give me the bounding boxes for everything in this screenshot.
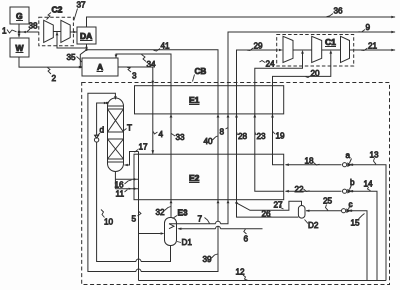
wire valve c outlet down to bottom header [351,211,367,281]
wire 27 from junction to D2 top [237,201,302,210]
svg-text:40: 40 [204,137,214,146]
arrow wire 17 into column right [124,164,128,167]
wire 7-8-9 from E3 coil up to product arrow 9 [169,32,395,224]
wire bottom header collecting a b c returns [139,280,387,282]
label 7 [198,215,210,224]
arrow wire 9 right end [391,31,395,34]
cold box CB (large dashed box) [82,83,390,285]
wire C1 interstage 2 [322,49,341,51]
exchanger E1 [135,86,284,114]
svg-text:18: 18 [305,157,315,166]
label 11 [116,190,128,199]
svg-text:6: 6 [244,235,249,244]
arrow wire 6 into D1 right [177,228,181,231]
box W [10,38,29,57]
label 25 [323,197,333,211]
arrow wire 3 at CB boundary [151,81,154,85]
label 21 [361,42,378,51]
wire C2 interstage feed riser [57,32,87,48]
compressor C2 stage 2 [61,20,70,42]
label 28 [237,132,248,141]
wire 38 from C2 to G-W shaft [20,31,39,33]
svg-text:G: G [16,11,23,21]
node 16 junction [133,178,135,180]
wire C2 outlet to DA [70,31,76,33]
arrow into A left [79,66,82,69]
label 15 [351,214,365,228]
wire 21 C1 outlet to right edge [350,49,396,51]
arrow up into E1 bottom x254.8 [253,114,256,118]
svg-text:C2: C2 [52,5,63,15]
node wire2 junction [79,66,81,68]
arrow wire 5 into D1 left [161,232,165,235]
svg-text:21: 21 [368,42,378,51]
hop of wire 6 over wire 39 [216,226,221,228]
svg-text:T: T [127,124,132,133]
label 20 [306,69,321,78]
exchanger E2 [134,154,284,200]
wire 22 valve b to E2 [286,190,342,192]
arrow up into E2 bottom x228 [227,200,230,204]
wire 2 from W to A [19,57,81,67]
wire 34-33-32 vapor stream: D1 top up through E2 E1 to box A [116,54,171,218]
wire column bottom outlet [114,172,116,189]
wire 18 valve a to E2 [286,164,342,166]
label 9 [359,23,371,32]
column T [108,98,124,172]
compressor C2 stage 1 [44,20,54,42]
arrow wire 18 into E2 right [285,163,289,166]
svg-text:35: 35 [67,53,77,62]
wire 17 to column top section [125,152,139,166]
drum D1 [165,218,177,246]
svg-text:26: 26 [262,210,272,219]
compressor C1 stage 2 [312,36,322,62]
svg-text:1: 1 [2,27,7,36]
arrow up into E1 bottom x171 [170,114,173,118]
box G [10,7,29,24]
label 19 [273,132,285,141]
wire 41-40-39 lean stream: DA junction right, down through E1 E2, bottom loop to column top [87,50,219,272]
arrow down into A top [115,55,118,59]
label 34 [142,55,157,70]
label 18 [305,157,320,166]
box DA [77,27,96,44]
svg-text:8: 8 [220,128,225,137]
svg-text:28: 28 [238,132,248,141]
wire 3-4 from A through E1 to E2 top [118,67,153,154]
svg-text:39: 39 [203,255,213,264]
arrow up into E1 bottom x272.5 [271,114,274,118]
hop of wire 7 over wire 39 [216,221,221,223]
wire 16 column bottom to E2 [115,178,138,180]
arrow up into C1 interstage 1 [301,50,304,54]
wire 2 arrow stub into A [80,66,82,68]
label 6 [244,229,249,244]
hop of wire d over riser at 261.5 [136,259,141,262]
arrow wire 22 into E2 right [285,190,289,193]
arrow up into E1 bottom x228 [227,114,230,118]
arrow into W top [18,34,21,38]
wire 5-11 riser: column bottom lines down to D1 feed and bottom header [139,152,161,281]
svg-text:24: 24 [266,60,276,69]
arrow wire 38 pointing left [22,31,26,34]
svg-text:5: 5 [132,215,137,224]
svg-text:2: 2 [52,74,57,83]
svg-text:33: 33 [176,133,186,142]
label 16 [115,180,132,190]
valve b [343,185,354,194]
label 23 [255,132,266,141]
svg-text:E1: E1 [189,95,200,105]
label D1 [177,238,192,247]
arrow wire 36 right end [391,16,395,19]
svg-text:20: 20 [311,69,321,78]
arrow up into E2 bottom x171 [170,200,173,204]
node G-W junction [18,31,20,33]
label 8 [220,128,229,137]
wire 26 from junction to D2 bottom side [237,203,299,217]
svg-text:41: 41 [161,42,171,51]
valve d [94,135,98,142]
svg-text:7: 7 [198,215,203,224]
arrow wire 29 into C1 inlet [279,49,283,52]
svg-text:36: 36 [334,7,344,16]
label 36 [327,7,344,17]
svg-text:E3: E3 [178,209,188,218]
node 11 junction [133,188,135,190]
label 14 [364,180,374,191]
label 22 [295,185,310,194]
svg-text:34: 34 [147,60,157,69]
wire C2 interstage [53,31,61,33]
svg-text:a: a [346,151,351,160]
arrow wire 4 into E2 top [151,150,154,154]
arrow down into column top [114,96,117,100]
wire 11 column bottom to D1 riser [115,188,138,190]
label 35 [67,53,82,62]
label 26 [262,210,272,219]
label 27 [274,201,284,210]
label 39 [203,254,218,264]
label 37 [74,1,86,21]
node column reflux junction [106,102,108,104]
arrow reflux into column left [104,102,108,105]
label 41 [154,42,171,52]
arrow wire 11 small right [129,188,132,190]
valve c [342,205,353,214]
svg-text:23: 23 [257,132,267,141]
arrow up into C2 interstage [56,32,59,36]
svg-text:17: 17 [139,143,149,152]
node D2 riser junction [235,202,237,204]
svg-text:d: d [100,126,105,135]
drum D2 [298,206,305,219]
svg-text:9: 9 [366,23,371,32]
svg-text:D1: D1 [182,238,193,247]
valve a [343,159,354,168]
compressor group C2 (dashed box) [39,5,74,46]
svg-text:E2: E2 [189,173,200,183]
arrow into DA left [73,31,77,34]
wire 6 feed line into E3 coil [179,228,263,230]
arrow wire 25 into D2 right [306,210,310,213]
arrow up into E2 bottom x218 [217,200,220,204]
label 4 [153,130,163,139]
svg-text:C1: C1 [325,37,336,47]
svg-text:32: 32 [156,208,166,217]
label 5 [132,212,142,224]
svg-text:4: 4 [159,130,164,139]
svg-text:11: 11 [116,190,125,199]
label T [124,124,132,133]
compressor C1 stage 1 [283,36,293,62]
svg-text:3: 3 [132,72,137,81]
label CB [193,67,207,82]
arrow up into E1 bottom x236.5 [235,114,238,118]
label 32 [156,207,171,218]
svg-text:A: A [97,62,103,72]
svg-text:b: b [350,178,355,187]
wire 19-20 inside E2 up to C1 second interstage [273,53,331,165]
label 10 [101,210,114,227]
arrow up into DA bottom [85,45,88,49]
label 12 [236,268,248,281]
svg-text:25: 25 [323,197,333,206]
wire valve b outlet down to bottom header [352,191,377,280]
label 33 [171,133,185,142]
wire 13 valve a outlet down to bottom header [352,165,386,281]
node DA feed junction [85,49,87,51]
svg-text:W: W [16,43,25,53]
svg-text:37: 37 [77,1,87,10]
label 40 [204,136,218,146]
label d [98,126,105,136]
wire 36 from DA top to right edge [87,17,396,27]
label 38 [27,22,38,32]
svg-text:22: 22 [295,185,305,194]
svg-text:15: 15 [351,219,361,228]
label 3 [127,67,137,80]
arrow up into E1 bottom x218 [217,114,220,118]
box A [82,58,118,76]
svg-text:10: 10 [104,218,114,227]
svg-text:D2: D2 [308,221,319,230]
wire 25 from valve c to D2 [306,210,341,212]
label 1 [2,27,17,36]
arrow up into C1 interstage 2 [329,50,332,54]
compressor group C1 (dashed box) [277,35,354,67]
label 17 [135,143,149,153]
hop of wire 39 return over riser at 271.5 [136,269,141,272]
label 13 [370,151,380,165]
wire C1 interstage 1 [293,49,312,51]
wire 23-24 inside E2 up to C1 first interstage [255,53,303,192]
label E3 [173,209,188,219]
wire G to W [18,24,20,37]
svg-text:c: c [349,200,353,209]
label 29 [247,42,263,51]
label D2 [305,220,319,231]
svg-text:CB: CB [195,67,207,76]
svg-text:DA: DA [80,31,92,41]
compressor C1 stage 3 [341,36,350,62]
svg-text:29: 29 [254,42,264,51]
wire 28-29 from D2 junction up to C1 inlet [237,50,279,203]
wire D1 bottoms to valve d and column top [97,103,171,262]
wire 35 riser from wire2 junction to DA junction [80,50,86,67]
arrow wire 21 right end [391,49,395,52]
svg-text:16: 16 [115,181,125,190]
label 2 [48,68,57,84]
svg-text:19: 19 [276,132,286,141]
wire DA bottom junction riser [86,45,88,51]
coil E3 inside D1 [169,224,174,229]
label 24 [260,60,276,69]
